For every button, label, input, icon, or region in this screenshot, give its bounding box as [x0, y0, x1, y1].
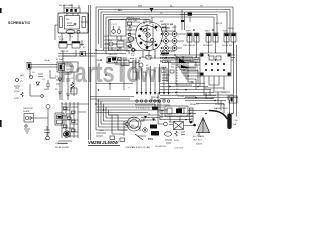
svg-text:10A 250V: 10A 250V: [108, 53, 118, 56]
svg-text:RY-2(A6): RY-2(A6): [160, 60, 171, 64]
svg-text:R-SW: R-SW: [228, 28, 234, 30]
svg-text:NO FAN LAMP: NO FAN LAMP: [59, 4, 74, 7]
svg-text:R-K5: R-K5: [14, 98, 20, 100]
svg-text:VM298 2L500W: VM298 2L500W: [88, 140, 119, 145]
svg-text:LINE FILTER: LINE FILTER: [55, 143, 68, 145]
svg-text:DOOR: DOOR: [216, 23, 223, 25]
svg-text:POWER RELAY: POWER RELAY: [160, 56, 179, 60]
svg-text:2300V: 2300V: [196, 144, 203, 146]
svg-text:CN-F: CN-F: [99, 130, 105, 132]
svg-text:TR1: TR1: [148, 137, 153, 141]
svg-text:1W: 1W: [44, 89, 47, 91]
svg-text:C-H: C-H: [234, 120, 238, 122]
svg-text:N.TM: N.TM: [104, 36, 109, 38]
svg-text:W-R: W-R: [138, 6, 143, 8]
svg-text:MG: MG: [66, 19, 70, 21]
svg-text:CN-D 6P: CN-D 6P: [60, 51, 69, 53]
svg-text:10A: 10A: [133, 19, 137, 22]
svg-text:T1 T2: T1 T2: [59, 39, 65, 41]
svg-text:ZD: ZD: [70, 91, 73, 93]
svg-text:SAFETY SW: SAFETY SW: [161, 23, 173, 26]
svg-text:POWER: POWER: [66, 66, 74, 68]
svg-text:NOISE FILTER: NOISE FILTER: [55, 147, 70, 149]
svg-text:SCHEMATIC: SCHEMATIC: [8, 21, 31, 25]
svg-text:PLATE: PLATE: [23, 110, 30, 113]
svg-text:NOISE: NOISE: [153, 97, 160, 99]
svg-text:MONITOR: MONITOR: [203, 45, 213, 47]
svg-text:2200P: 2200P: [14, 91, 21, 93]
svg-text:UNIT(A2): UNIT(A2): [161, 27, 170, 30]
svg-text:C-21 1KV: C-21 1KV: [174, 148, 184, 150]
svg-text:1ST. LATCH: 1ST. LATCH: [160, 49, 175, 53]
svg-text:240V 16A: 240V 16A: [106, 61, 116, 64]
svg-text:TURNTABLE MOTOR (A8): TURNTABLE MOTOR (A8): [125, 146, 150, 149]
svg-text:SW: SW: [160, 21, 163, 23]
svg-text:UNIT: UNIT: [66, 69, 72, 71]
svg-text:C110: C110: [161, 99, 167, 101]
svg-text:DOOR SW: DOOR SW: [222, 45, 232, 47]
svg-text:OUT PUT: OUT PUT: [193, 140, 203, 142]
svg-text:C-H: C-H: [222, 92, 226, 94]
svg-text:1 2 3 4 5 6 7 8: 1 2 3 4 5 6 7 8: [136, 108, 150, 110]
svg-text:N.L: N.L: [118, 8, 123, 12]
svg-text:TH-SW 150: TH-SW 150: [155, 146, 167, 148]
svg-text:C1 C2: C1 C2: [111, 24, 118, 26]
svg-text:CN-A: CN-A: [44, 59, 50, 62]
svg-text:F1 10A: F1 10A: [56, 58, 63, 61]
svg-text:MN-TN: MN-TN: [127, 17, 134, 19]
svg-text:RY-M: RY-M: [141, 57, 146, 59]
svg-text:CAUTION: CAUTION: [23, 107, 33, 110]
svg-text:2ND. LATCH: 2ND. LATCH: [183, 44, 195, 47]
svg-text:TM: TM: [148, 41, 151, 43]
svg-text:FM: FM: [131, 125, 134, 127]
